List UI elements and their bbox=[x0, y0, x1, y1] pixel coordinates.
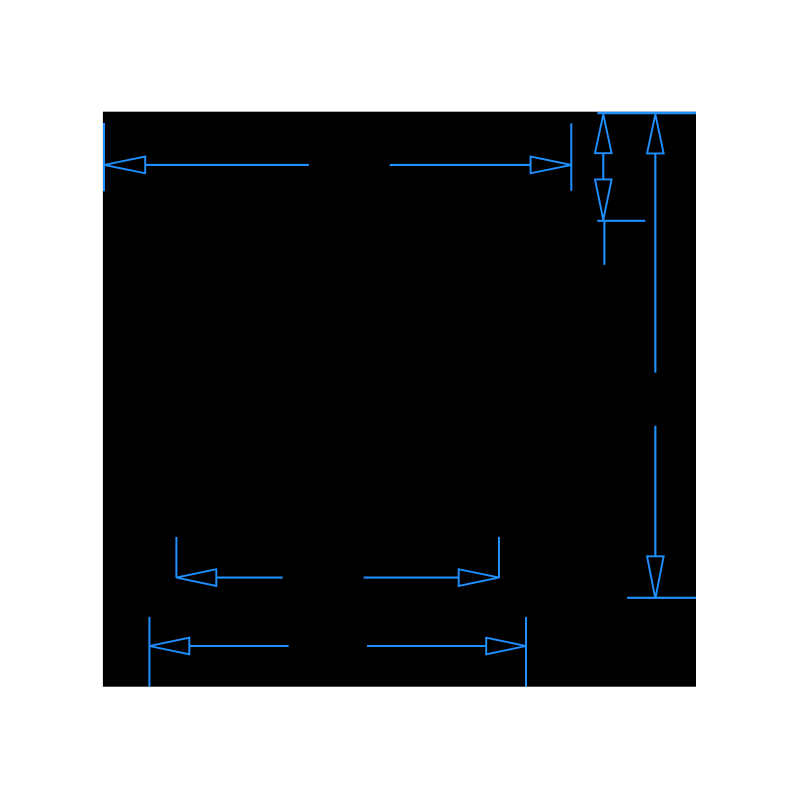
dimension line left segment (inner bottom dim) bbox=[216, 577, 282, 579]
arrowhead left (top dim) bbox=[104, 157, 145, 174]
dimension line upper segment (tall vertical dim) bbox=[654, 153, 656, 372]
extension line right (top dim) bbox=[570, 123, 572, 190]
dimension line left segment (top dim) bbox=[145, 164, 309, 166]
arrowhead right (outer bottom dim) bbox=[486, 638, 526, 655]
dimension group: small vertical dimension (x=603.3) bbox=[595, 114, 645, 264]
dimension line segment (small vertical dim) bbox=[602, 153, 604, 179]
part face (black filled square) bbox=[103, 112, 696, 687]
dimension group: top width dimension bbox=[104, 123, 572, 191]
extension line left (inner bottom dim) bbox=[175, 537, 177, 578]
dimension line left segment (outer bottom dim) bbox=[189, 645, 288, 647]
dimension line right segment (top dim) bbox=[390, 164, 531, 166]
dimension line right segment (outer bottom dim) bbox=[367, 645, 486, 647]
dimension line lower segment (tall vertical dim) bbox=[654, 426, 656, 557]
arrowhead up (tall vertical dim) bbox=[647, 114, 664, 153]
arrowhead down (tall vertical dim) bbox=[647, 556, 664, 598]
leader below (small vertical dim) bbox=[603, 222, 605, 265]
arrowhead right (top dim) bbox=[531, 157, 572, 174]
extension line right (outer bottom dim) bbox=[525, 617, 527, 687]
extension line right (inner bottom dim) bbox=[498, 537, 500, 578]
arrowhead right (inner bottom dim) bbox=[459, 569, 499, 586]
extension tick (tall vertical dim) bbox=[627, 597, 696, 599]
dimension group: tall vertical dimension (x=655.35) bbox=[627, 114, 696, 598]
arrowhead down (small vertical dim) bbox=[595, 179, 612, 219]
extension line left (top dim) bbox=[103, 123, 105, 191]
reference line: top edge extension to the right bbox=[597, 112, 696, 115]
extension line left (outer bottom dim) bbox=[148, 617, 150, 687]
dimension group: inner bottom dimension (y=577.6) bbox=[176, 537, 499, 586]
dimension line right segment (inner bottom dim) bbox=[364, 577, 459, 579]
arrowhead left (outer bottom dim) bbox=[149, 638, 189, 655]
arrowhead up (small vertical dim) bbox=[595, 114, 612, 153]
arrowhead left (inner bottom dim) bbox=[176, 569, 216, 586]
extension tick (small vertical dim) bbox=[597, 220, 645, 222]
dimension group: outer bottom dimension (y=646.0) bbox=[149, 617, 526, 687]
